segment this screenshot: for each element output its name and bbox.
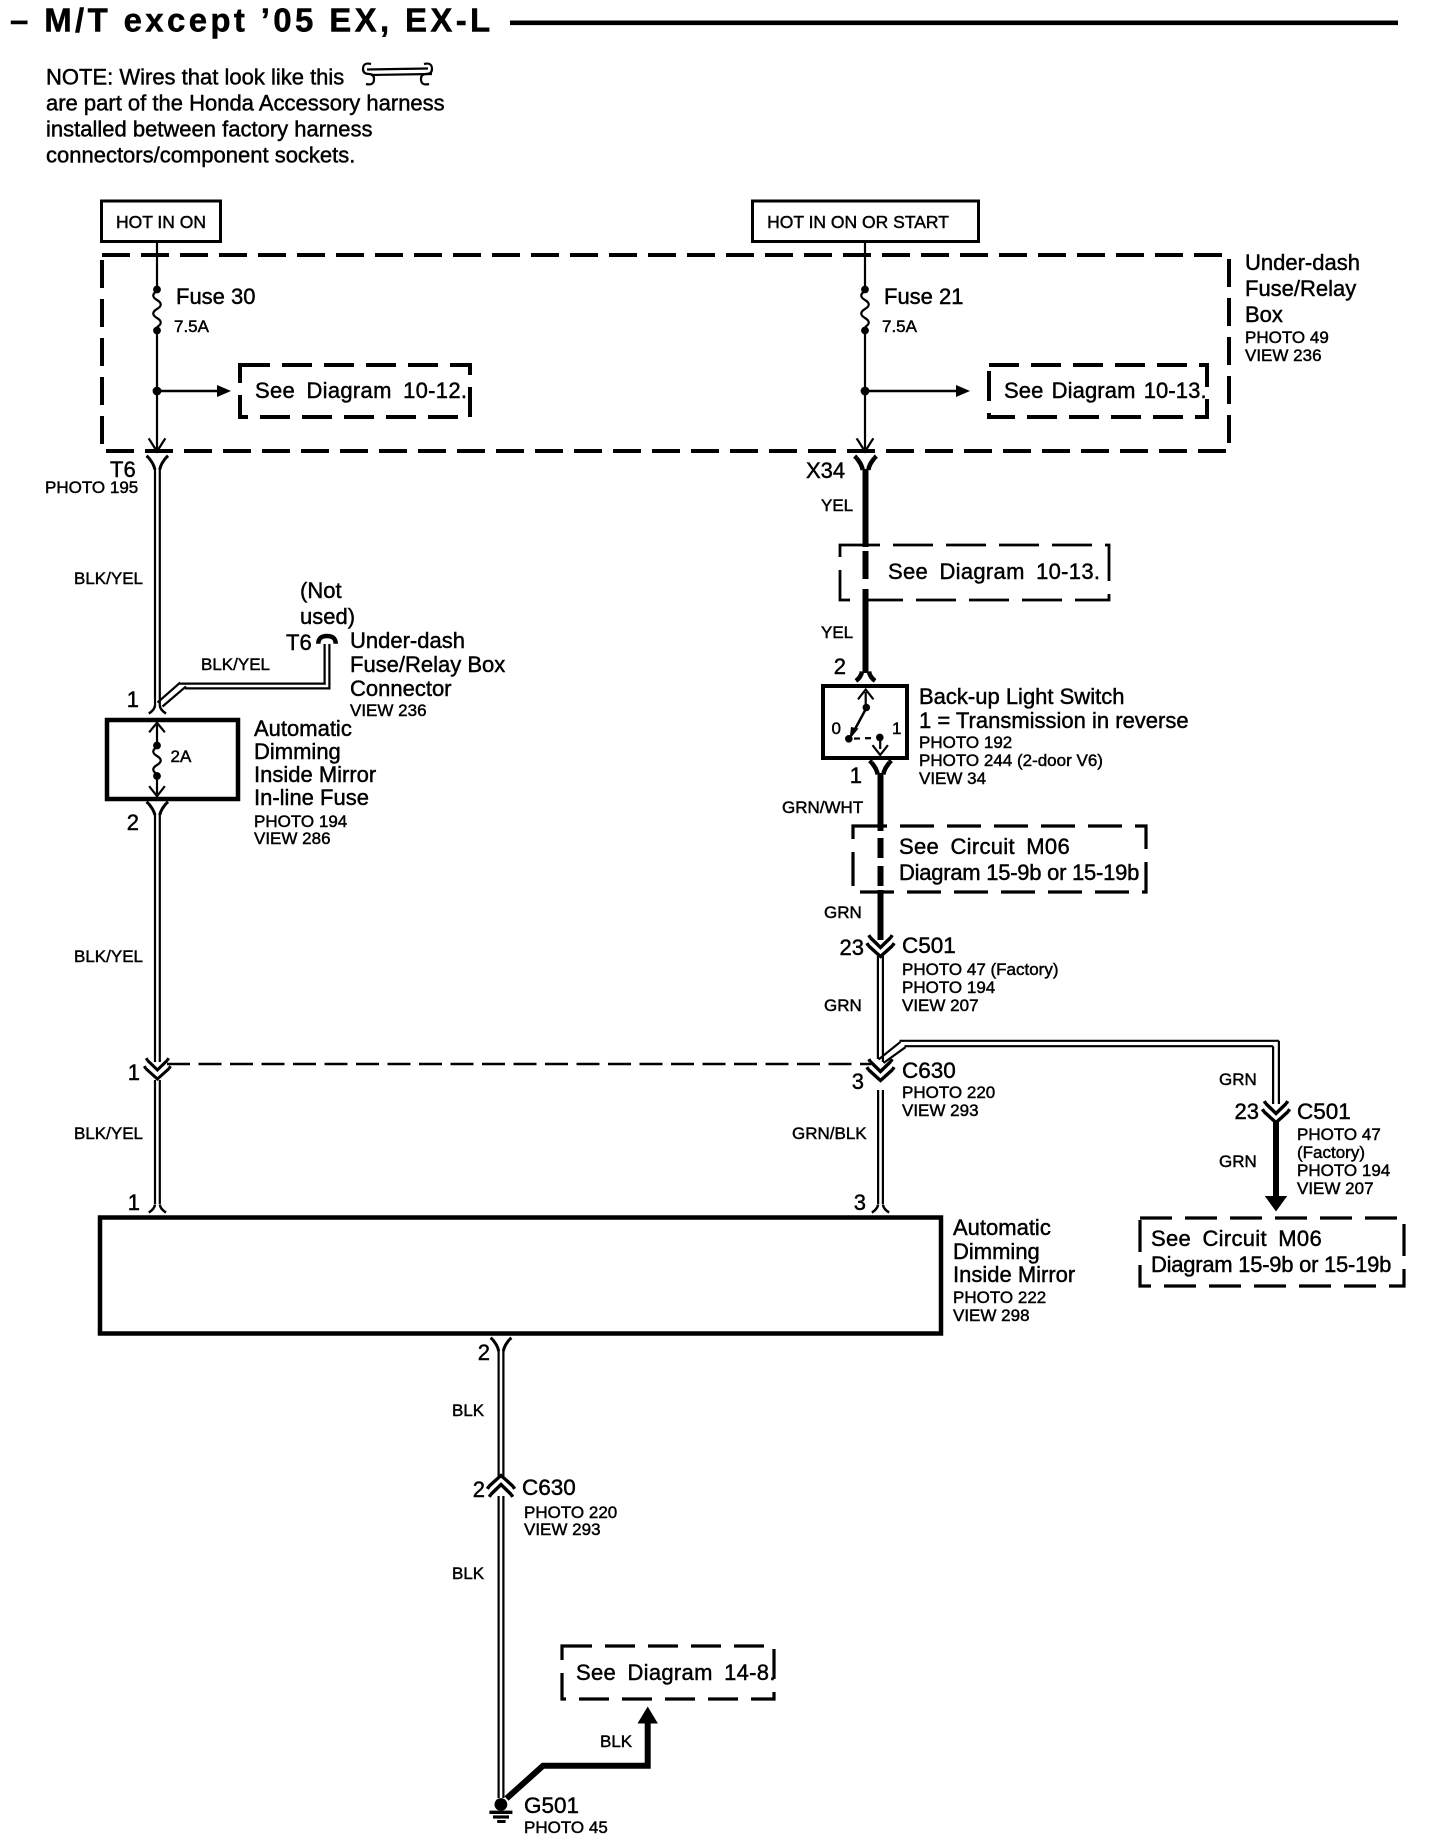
svg-text:7.5A: 7.5A [882,317,918,336]
wire BLK to ground [452,1496,503,1798]
svg-text:GRN: GRN [824,903,862,922]
svg-text:connectors/component sockets.: connectors/component sockets. [46,143,355,168]
svg-text:BLK: BLK [452,1401,485,1420]
See Circuit M06 box (dashed) [853,826,1146,892]
See Circuit M06 box (dashed, right) [1140,1218,1404,1286]
svg-text:BLK/YEL: BLK/YEL [74,947,143,966]
fuse F21 [861,284,963,336]
pin 1 of in-line fuse [127,687,166,714]
svg-text:BLK/YEL: BLK/YEL [74,1124,143,1143]
svg-text:Inside Mirror: Inside Mirror [254,762,376,787]
svg-text:VIEW 293: VIEW 293 [524,1520,601,1539]
HOT IN ON box [102,201,221,242]
svg-text:23: 23 [1235,1099,1259,1124]
svg-text:1: 1 [850,763,862,788]
back-up light switch box [823,686,907,758]
svg-text:PHOTO 192: PHOTO 192 [919,733,1012,752]
svg-text:1 = Transmission in reverse: 1 = Transmission in reverse [919,708,1189,733]
svg-text:0: 0 [832,719,841,738]
wire BLK below mirror [452,1350,503,1476]
connector C630 pin 3 [852,1058,995,1120]
accessory harness symbol [363,64,432,85]
wire branch up-right to C501 [879,1041,1279,1104]
svg-text:G501: G501 [524,1793,579,1818]
wire fuse 30 down to dashed box bottom [153,333,162,451]
svg-text:BLK/YEL: BLK/YEL [74,569,143,588]
svg-text:1: 1 [892,719,901,738]
connector pin 1 at dashed junction [128,1058,171,1085]
svg-text:PHOTO 244 (2-door V6): PHOTO 244 (2-door V6) [919,751,1103,770]
svg-text:2: 2 [127,810,139,835]
pin 3 of mirror [854,1190,889,1215]
wire GRN through box to C501 [824,838,881,940]
svg-text:BLK/YEL: BLK/YEL [201,655,270,674]
svg-text:Automatic: Automatic [953,1215,1051,1240]
See Diagram 10-12 box (dashed) [240,365,470,417]
svg-text:Dimming: Dimming [953,1239,1040,1264]
svg-text:VIEW 207: VIEW 207 [1297,1179,1374,1198]
svg-text:VIEW 293: VIEW 293 [902,1101,979,1120]
svg-text:BLK: BLK [600,1732,633,1751]
svg-text:PHOTO 45: PHOTO 45 [524,1818,608,1837]
connector T6 (female) [45,456,168,497]
arrow to See Diagram 10-12 [157,385,231,397]
svg-text:HOT IN ON OR START: HOT IN ON OR START [767,212,949,232]
arrow to See Diagram 10-13 [865,385,970,397]
svg-text:GRN/WHT: GRN/WHT [782,798,863,817]
svg-text:are part of the Honda Accessor: are part of the Honda Accessory harness [46,91,445,116]
svg-text:used): used) [300,604,355,629]
wire GRN/WHT below switch [782,773,881,831]
ground G501 [489,1793,607,1837]
title M/T except '05 EX, EX-L [10,2,494,39]
svg-text:See Circuit M06: See Circuit M06 [899,834,1070,859]
wire fuse 21 down to dashed box bottom [861,333,870,451]
svg-text:In-line Fuse: In-line Fuse [254,785,369,810]
svg-text:2A: 2A [171,747,192,766]
svg-text:GRN: GRN [1219,1152,1257,1171]
svg-text:Box: Box [1245,302,1283,327]
wire from HOT IN ON to fuse 30 [156,242,158,287]
svg-text:Automatic: Automatic [254,716,352,741]
under-dash fuse/relay box label [1245,250,1360,365]
svg-text:(Factory): (Factory) [1297,1143,1365,1162]
mirror label [953,1215,1075,1325]
wire GRN C501 to C630 [824,956,883,1062]
under-dash fuse/relay box (dashed) [102,255,1229,451]
See Diagram 14-8 box (dashed) [562,1646,776,1699]
svg-text:GRN/BLK: GRN/BLK [792,1124,867,1143]
svg-text:C501: C501 [902,933,956,958]
svg-text:1: 1 [128,1190,140,1215]
svg-text:VIEW 207: VIEW 207 [902,996,979,1015]
svg-text:PHOTO 194: PHOTO 194 [902,978,995,997]
svg-text:PHOTO 222: PHOTO 222 [953,1288,1046,1307]
svg-text:See Diagram 14-8.: See Diagram 14-8. [576,1660,776,1685]
svg-text:Fuse/Relay: Fuse/Relay [1245,276,1356,301]
svg-text:PHOTO 49: PHOTO 49 [1245,328,1329,347]
automatic dimming inside mirror box [100,1218,941,1334]
wire YEL through box (dashed) [821,551,866,673]
svg-text:X34: X34 [806,458,845,483]
svg-text:Back-up Light Switch: Back-up Light Switch [919,684,1124,709]
svg-text:Diagram 15-9b or 15-19b: Diagram 15-9b or 15-19b [899,860,1139,885]
svg-text:See Diagram 10-13.: See Diagram 10-13. [888,559,1100,584]
svg-text:– M/T except ’05 EX, EX-L: – M/T except ’05 EX, EX-L [10,2,494,39]
in-line fuse label [254,716,376,848]
See Diagram 10-13 box (dashed) lower [840,545,1109,600]
svg-text:HOT IN ON: HOT IN ON [116,212,206,232]
svg-text:C501: C501 [1297,1099,1351,1124]
svg-text:3: 3 [852,1069,864,1094]
title rule [510,21,1398,26]
svg-text:23: 23 [840,935,864,960]
(Not used) label [300,578,355,629]
in-line fuse box [107,720,238,799]
pin 1 of back-up light switch [850,761,892,788]
switch symbol inside [832,690,902,756]
svg-text:See Diagram 10-12.: See Diagram 10-12. [255,378,467,403]
svg-text:Under-dash: Under-dash [350,628,465,653]
arrow into See Diagram 14-8 [638,1707,658,1724]
svg-text:PHOTO 47 (Factory): PHOTO 47 (Factory) [902,960,1059,979]
svg-text:GRN: GRN [1219,1070,1257,1089]
svg-text:installed between factory harn: installed between factory harness [46,117,373,142]
svg-text:Under-dash: Under-dash [1245,250,1360,275]
svg-text:PHOTO 194: PHOTO 194 [1297,1161,1390,1180]
svg-text:PHOTO 47: PHOTO 47 [1297,1125,1381,1144]
svg-text:See Circuit M06: See Circuit M06 [1151,1226,1322,1251]
svg-text:PHOTO 220: PHOTO 220 [902,1083,995,1102]
wire GRN down to M06 [1219,1122,1276,1198]
svg-text:(Not: (Not [300,578,342,603]
connector X34 (female, heavy) [806,456,876,483]
svg-text:NOTE: Wires that look like thi: NOTE: Wires that look like this [46,65,344,90]
svg-text:YEL: YEL [821,496,853,515]
arrowhead at right wire bottom [857,438,874,451]
svg-text:1: 1 [127,687,139,712]
svg-text:VIEW 286: VIEW 286 [254,829,331,848]
svg-text:YEL: YEL [821,623,853,642]
pin 2 of in-line fuse [127,802,168,835]
under-dash fuse/relay box connector label [350,628,505,720]
svg-text:VIEW 298: VIEW 298 [953,1306,1030,1325]
connector C501 pin 23 (right) [1235,1099,1391,1198]
wire from HOT IN ON OR START to fuse 21 [864,242,866,287]
pin 2 of mirror [478,1338,512,1365]
wire BLK/YEL from T6 down [74,468,160,706]
back-up light switch label [919,684,1189,788]
wire branch to unused T6 connector [158,644,331,707]
svg-text:BLK: BLK [452,1564,485,1583]
dashed wire across to C630 [167,1063,871,1066]
svg-text:1: 1 [128,1060,140,1085]
wire GRN/BLK C630 to mirror pin 3 [792,1090,883,1204]
See Diagram 10-13 box (dashed) [989,365,1207,417]
svg-text:Dimming: Dimming [254,739,341,764]
wire YEL from X34 [821,469,866,547]
connector T6 unused (male cap) [286,630,336,655]
svg-text:C630: C630 [902,1058,956,1083]
svg-text:VIEW 236: VIEW 236 [1245,346,1322,365]
svg-text:Fuse 21: Fuse 21 [884,284,964,309]
note text [46,65,445,168]
svg-text:7.5A: 7.5A [174,317,210,336]
svg-text:2: 2 [834,654,846,679]
svg-text:2: 2 [478,1340,490,1365]
svg-text:VIEW 236: VIEW 236 [350,701,427,720]
svg-text:Diagram 15-9b or 15-19b: Diagram 15-9b or 15-19b [1151,1252,1391,1277]
connector C501 pin 23 [840,933,1059,1015]
arrowhead at left wire bottom [149,438,166,451]
wire BLK from ground junction to 14-8 [507,1721,648,1799]
svg-text:T6: T6 [286,630,312,655]
HOT IN ON OR START box [753,201,979,242]
fuse 2A symbol inside [149,723,192,796]
connector C630 pin 2 [473,1475,617,1539]
wire BLK/YEL to mirror pin 1 [74,1080,160,1204]
svg-text:PHOTO 195: PHOTO 195 [45,478,138,497]
svg-text:GRN: GRN [824,996,862,1015]
svg-text:See Diagram 10-13.: See Diagram 10-13. [1004,378,1207,403]
arrow into See Circuit M06 [1265,1196,1287,1212]
pin 2 of back-up light switch [834,654,875,681]
svg-text:3: 3 [854,1190,866,1215]
svg-text:VIEW 34: VIEW 34 [919,769,986,788]
pin 1 of mirror [128,1190,166,1215]
svg-text:Fuse/Relay Box: Fuse/Relay Box [350,652,505,677]
wire BLK/YEL below in-line fuse [74,813,160,1062]
svg-text:C630: C630 [522,1475,576,1500]
svg-text:Connector: Connector [350,676,452,701]
svg-text:Inside Mirror: Inside Mirror [953,1262,1075,1287]
fuse F30 [153,284,255,336]
svg-text:Fuse 30: Fuse 30 [176,284,256,309]
svg-text:2: 2 [473,1477,485,1502]
